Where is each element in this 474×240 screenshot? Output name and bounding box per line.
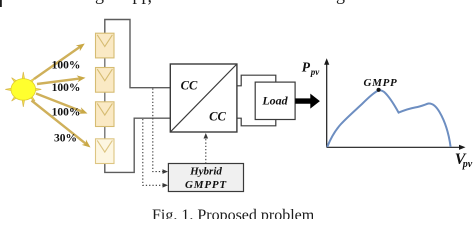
svg-text:CC: CC <box>181 79 198 93</box>
svg-text:pv: pv <box>310 67 321 77</box>
plug connector between converter and load <box>237 75 276 126</box>
svg-text:Load: Load <box>261 94 288 108</box>
svg-text:GMPPT: GMPPT <box>185 179 227 191</box>
irradiance arrow 3 (100%) <box>36 94 88 114</box>
svg-text:100%: 100% <box>52 107 81 119</box>
sun rays <box>5 72 41 107</box>
PV panel 1 <box>96 33 115 58</box>
load box <box>255 82 295 119</box>
Hybrid GMPPT controller box <box>168 164 243 192</box>
irradiance arrow 4 (30%) <box>32 101 91 148</box>
dashed sense line from top wire to controller <box>153 89 168 174</box>
GMPP point <box>377 88 381 92</box>
graph X axis (V axis) <box>327 145 466 150</box>
P-V curve <box>327 90 450 147</box>
wire: PV string segments <box>104 58 106 139</box>
svg-text:pv: pv <box>462 159 473 170</box>
svg-text:,: , <box>148 0 153 6</box>
dashed sense line from bottom wire to controller <box>143 119 168 188</box>
axis label V_pv <box>455 151 473 170</box>
PV panel 2 <box>96 68 115 93</box>
svg-text:30%: 30% <box>54 133 77 145</box>
irradiance arrow 1 (100%) <box>34 44 85 80</box>
svg-text:g: g <box>95 0 104 4</box>
PV panel 4 (shaded 30%) <box>96 139 115 164</box>
cropped text line fragments (top of page) <box>0 0 345 7</box>
sun <box>11 79 36 101</box>
dashed control line from controller to converter <box>204 133 209 164</box>
wire: string bottom to converter input (-) <box>105 118 171 172</box>
svg-text:100%: 100% <box>52 82 81 94</box>
svg-text:CC: CC <box>209 110 226 124</box>
graph Y axis (P axis) <box>324 58 329 147</box>
svg-text:g: g <box>336 0 345 4</box>
svg-text:GMPP: GMPP <box>364 77 398 89</box>
svg-text:P: P <box>302 60 311 75</box>
svg-text:100%: 100% <box>52 60 81 72</box>
PV panel 3 <box>96 102 115 127</box>
wire: string top to converter input (+) <box>105 20 171 88</box>
converter CC box <box>170 64 237 132</box>
svg-text:Fig. 1. Proposed problem: Fig. 1. Proposed problem <box>152 207 315 219</box>
svg-text:Hybrid: Hybrid <box>189 165 222 177</box>
axis label P_pv <box>302 60 321 78</box>
irradiance arrow 2 (100%) <box>37 75 86 84</box>
thick output arrow <box>295 94 320 109</box>
